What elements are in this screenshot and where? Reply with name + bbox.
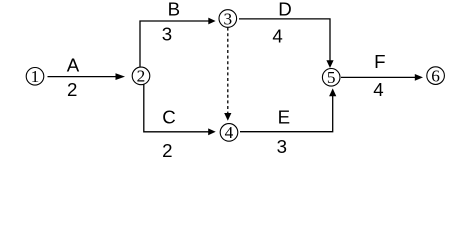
arrowhead dashed (down) [224, 113, 231, 121]
svg-text:5: 5 [327, 68, 336, 87]
arrowhead A [116, 73, 126, 80]
wire F: node 5 to node 6 [341, 76, 416, 78]
svg-text:3: 3 [223, 9, 232, 28]
svg-text:A: A [67, 54, 80, 75]
svg-text:E: E [278, 107, 290, 128]
node 2 [132, 67, 150, 86]
node 4 [220, 123, 238, 142]
wire E: node 4 right then up to node 5 [240, 96, 333, 132]
svg-text:C: C [162, 106, 176, 127]
svg-text:2: 2 [162, 140, 172, 161]
svg-text:F: F [374, 51, 385, 72]
svg-text:2: 2 [67, 79, 77, 100]
svg-text:D: D [278, 0, 292, 19]
node 5 [322, 68, 340, 87]
svg-text:4: 4 [373, 79, 383, 100]
arrowhead C [208, 128, 216, 135]
svg-text:6: 6 [431, 66, 440, 85]
svg-text:4: 4 [225, 123, 234, 142]
node 6 [427, 66, 445, 85]
dashed wire: node 3 down to node 4 [227, 28, 229, 113]
svg-text:1: 1 [31, 67, 40, 86]
arrowhead D (down) [326, 60, 333, 68]
arrowhead E (up) [329, 88, 336, 96]
svg-text:3: 3 [277, 136, 287, 157]
svg-text:2: 2 [137, 67, 146, 86]
svg-text:4: 4 [272, 25, 282, 46]
arrowhead F [415, 74, 423, 81]
node 1 [26, 67, 44, 86]
wire A: node 1 to node 2 [48, 76, 119, 78]
svg-text:3: 3 [162, 24, 172, 45]
svg-text:B: B [168, 0, 180, 19]
wire C: node 2 down then right to node 4 [144, 85, 209, 132]
wire D: node 3 right then down to node 5 [239, 19, 330, 61]
wire B: node 2 up then right to node 3 [140, 21, 209, 67]
node 3 [219, 9, 237, 28]
arrowhead B [208, 18, 215, 25]
